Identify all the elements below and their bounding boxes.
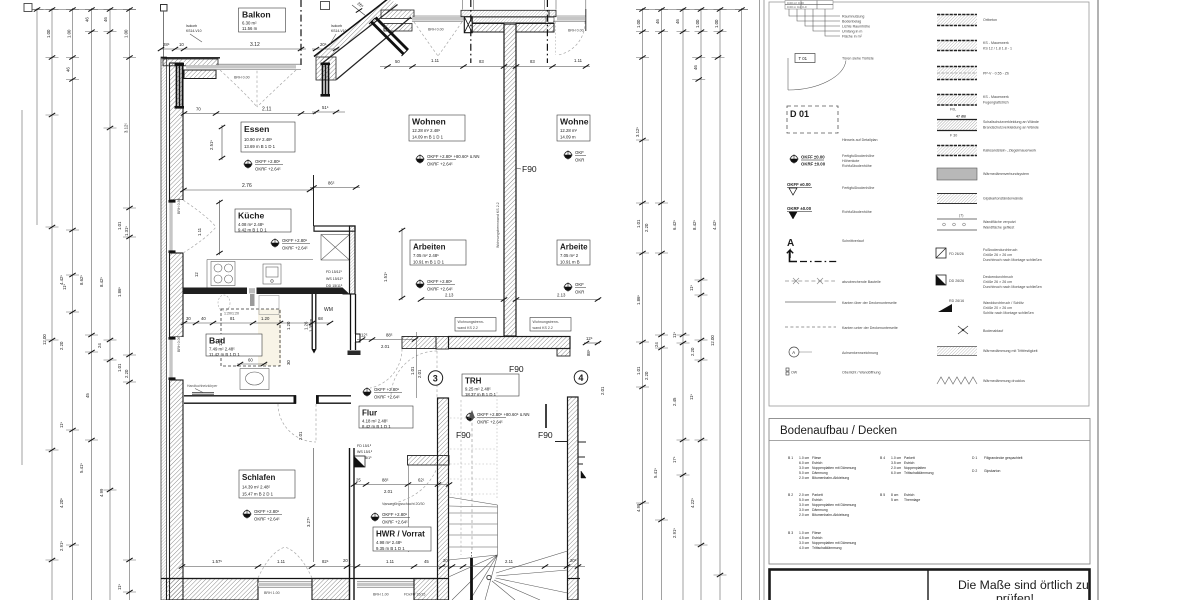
stair treads straight flight [449,497,498,555]
svg-text:1.00: 1.00 [67,29,72,38]
label box Wohnungstrennwand right [530,318,571,332]
svg-text:Fläche in m²: Fläche in m² [842,35,863,39]
party wall F90 label [516,168,521,169]
svg-text:A: A [792,350,795,355]
svg-text:OKRF +2.64⁵: OKRF +2.64⁵ [255,167,281,172]
svg-text:4.99: 4.99 [636,503,641,512]
Essen window right pier [316,57,336,80]
svg-text:1.0 cm: 1.0 cm [799,531,809,535]
svg-text:Schlafen: Schlafen [242,473,275,482]
svg-text:1.35 m: 1.35 m [309,318,314,332]
svg-text:PP-V - 0.55 - Zb: PP-V - 0.55 - Zb [983,72,1009,76]
svg-text:BRH 0.00: BRH 0.00 [234,76,250,80]
svg-text:Dämmung: Dämmung [812,508,828,512]
svg-text:wand KS 2.2: wand KS 2.2 [533,326,553,330]
svg-text:Küche: Küche [238,211,264,221]
svg-text:prüfen!: prüfen! [996,592,1034,600]
left dimension chain lines [22,8,136,600]
svg-text:OKFF +2.80⁵: OKFF +2.80⁵ [255,159,281,164]
Bad washbasin [240,369,269,390]
svg-text:14.09 m B 1 D 1: 14.09 m B 1 D 1 [412,135,444,140]
right chain labels [635,19,719,538]
svg-text:1.57⁵: 1.57⁵ [212,559,222,564]
small dim marks right of flur [583,336,601,345]
svg-text:2.20: 2.20 [644,371,649,380]
svg-text:Kalksandstein-, Ziegelmauerwer: Kalksandstein-, Ziegelmauerwerk [983,149,1036,153]
svg-text:2.45: 2.45 [672,397,677,406]
svg-text:Fertigfußbodenhöhe: Fertigfußbodenhöhe [842,186,874,190]
HWR left thin line [408,465,410,552]
svg-text:46: 46 [693,65,698,70]
svg-text:5.41⁵: 5.41⁵ [653,468,658,478]
pier dim 20 [312,42,340,51]
svg-text:BRH 0.00: BRH 0.00 [568,29,584,33]
wall piece WM/Flur vertical [351,294,361,350]
svg-text:4.08 m² 2.48⁵: 4.08 m² 2.48⁵ [238,222,264,227]
svg-text:Filigrandecke gespachtelt: Filigrandecke gespachtelt [984,456,1023,460]
legend solid edge line [785,301,836,303]
stair winder treads left [449,555,498,600]
legend door symbol T01 [795,54,815,63]
legend wall band Ziegelmauerwerk [937,145,1036,156]
svg-text:7.49 m² 2.48⁵: 7.49 m² 2.48⁵ [209,347,235,352]
svg-text:(7): (7) [959,214,963,218]
svg-text:OKR: OKR [575,158,584,163]
svg-text:Hinweis auf Detailplan: Hinweis auf Detailplan [842,138,878,142]
svg-text:30: 30 [286,360,291,365]
svg-text:2.0 cm: 2.0 cm [891,466,901,470]
svg-text:OKFF ±0.00: OKFF ±0.00 [801,155,825,160]
top wall Wohnen band lower [384,24,412,32]
svg-text:3.0 cm: 3.0 cm [799,541,809,545]
svg-text:4.22⁵: 4.22⁵ [690,498,695,508]
svg-text:88⁵: 88⁵ [586,349,591,356]
window left Kueche [167,198,184,253]
svg-text:2.20: 2.20 [124,369,129,378]
svg-text:10.91 m B 1 D 1: 10.91 m B 1 D 1 [413,260,445,265]
legend wall band Ortbeton [937,14,997,26]
TRH vertical mark [545,404,547,428]
svg-text:5.0 cm: 5.0 cm [799,498,809,502]
svg-text:OKRF ±0.00: OKRF ±0.00 [801,162,826,167]
svg-text:Thermlage: Thermlage [904,498,920,502]
window left Bad [167,336,184,380]
room label Bad [206,334,262,357]
svg-text:14.09 m: 14.09 m [560,135,576,140]
pier stub lines above top wall [463,0,586,10]
svg-text:6.0 cm: 6.0 cm [799,461,809,465]
isokorb labels [186,24,347,44]
Essen window curtain arcs [220,70,296,107]
svg-text:Rohfußbodenhöhe: Rohfußbodenhöhe [842,210,872,214]
svg-text:12: 12 [194,272,199,277]
svg-text:Noppenplatten mit Dämmung: Noppenplatten mit Dämmung [812,466,856,470]
sheet frame line inner2 [763,0,765,600]
stair walk line [469,410,475,600]
svg-text:Wärmedämmung mit Trittfestigke: Wärmedämmung mit Trittfestigkeit [983,349,1038,353]
svg-text:1.01: 1.01 [117,221,122,230]
svg-text:Bodenablauf: Bodenablauf [983,329,1003,333]
bottom wall outer edge [161,578,449,580]
svg-text:11⁵: 11⁵ [689,285,694,291]
legend stamp leader lines [789,9,840,36]
stairwell corner block [436,337,449,350]
top dim line windows row [380,58,590,69]
svg-text:KS - Mauerwerk: KS - Mauerwerk [983,95,1009,99]
svg-text:F90: F90 [509,364,524,374]
svg-text:FD 15/1⁵: FD 15/1⁵ [357,444,372,448]
svg-text:FDxFD 15/15: FDxFD 15/15 [404,593,425,597]
left exterior wall inner leaf segment 2 [170,253,184,337]
svg-text:OKRF ±0.00: OKRF ±0.00 [787,206,812,211]
svg-text:1.01: 1.01 [117,363,122,372]
svg-text:B 1: B 1 [788,456,793,460]
svg-text:7.05 m² 2: 7.05 m² 2 [560,253,579,258]
svg-text:12.28 m² 2.48⁵: 12.28 m² 2.48⁵ [412,128,441,133]
svg-text:2.20: 2.20 [690,347,695,356]
svg-text:Balkon: Balkon [242,10,271,20]
svg-text:Fliese: Fliese [812,531,821,535]
svg-text:46: 46 [675,19,680,24]
svg-text:1.0 cm: 1.0 cm [891,456,901,460]
Essen level symbol [243,159,283,172]
svg-text:OKFF +2.80⁵: OKFF +2.80⁵ [427,279,453,284]
svg-text:BRH 0.00: BRH 0.00 [428,28,444,32]
svg-text:OKFF +2.80⁵: OKFF +2.80⁵ [374,387,400,392]
svg-text:3.0 cm: 3.0 cm [799,466,809,470]
svg-text:Arbeite: Arbeite [560,243,588,252]
svg-text:1.31⁵: 1.31⁵ [124,226,129,236]
Kueche left rot dim [216,200,222,255]
Bodenaufbau text block B5 [880,493,920,502]
svg-text:OKFF +2.80⁵: OKFF +2.80⁵ [254,509,280,514]
svg-text:20⁵: 20⁵ [570,558,577,563]
svg-text:Noppenplatten: Noppenplatten [904,466,926,470]
svg-text:6.30 m²: 6.30 m² [242,21,257,26]
window reveal dotted right [555,22,557,55]
svg-text:Bodenaufbau / Decken: Bodenaufbau / Decken [780,425,897,437]
Arbeiten level symbol [415,279,455,292]
svg-text:D 2: D 2 [972,469,977,473]
legend wall band KS Fugenglattstrich [937,94,1009,112]
svg-text:Wandfläche verputzt: Wandfläche verputzt [983,220,1016,224]
svg-text:Fertigfußbodenhöhe: Fertigfußbodenhöhe [842,154,874,158]
svg-text:Größe 20 × 26 cm: Größe 20 × 26 cm [983,306,1012,310]
svg-text:Estrich: Estrich [812,498,822,502]
svg-text:3.12: 3.12 [250,42,260,48]
svg-text:OKRF +2.64⁵: OKRF +2.64⁵ [282,246,308,251]
svg-text:2.0 cm: 2.0 cm [799,476,809,480]
svg-text:Estrich: Estrich [812,461,822,465]
svg-text:4.0 cm: 4.0 cm [799,546,809,550]
wall Schlafen/HWR vertical double [350,448,355,600]
right Wohnen window glazing [557,17,585,20]
pier X-box left [464,17,472,33]
dim 2.13 right [513,293,601,302]
svg-text:Wanddurchbruch / Schlitz: Wanddurchbruch / Schlitz [983,301,1024,305]
svg-text:Umfang in m: Umfang in m [842,30,862,34]
svg-text:OKRF +2.64⁵: OKRF +2.64⁵ [427,162,453,167]
svg-text:20: 20 [343,558,348,563]
svg-text:13.69 m B 1 D 1: 13.69 m B 1 D 1 [244,144,276,149]
column marker top far-left [24,4,32,12]
svg-text:KS14-V10: KS14-V10 [186,29,202,33]
svg-text:1.11: 1.11 [431,58,440,63]
Flur top dim row [357,333,418,350]
Wohnen window glazing top [412,17,464,20]
svg-text:Lichte Raumhöhe: Lichte Raumhöhe [842,25,870,29]
room label Kueche [235,209,291,233]
stair rail dashed [460,400,462,555]
small diagonal dim 26 [352,1,366,16]
svg-text:1.00: 1.00 [124,29,129,38]
svg-text:Isokorb: Isokorb [331,24,342,28]
svg-text:Wärmedämmung drucklos: Wärmedämmung drucklos [983,379,1025,383]
svg-text:3.5 cm: 3.5 cm [891,461,901,465]
legend RD symbol [938,299,1034,315]
svg-text:wand KS 2.2: wand KS 2.2 [458,326,478,330]
svg-text:3.12⁵: 3.12⁵ [124,123,129,133]
svg-text:1.0 cm: 1.0 cm [799,456,809,460]
svg-text:Oberlicht / Wandöffnung: Oberlicht / Wandöffnung [842,371,881,375]
svg-text:Trittschalldämmung: Trittschalldämmung [812,546,842,550]
svg-text:2.01: 2.01 [298,431,303,440]
left exterior wall outer leaf [161,57,167,600]
right dimension chain lines [636,8,748,600]
kitchen counter line [207,260,313,288]
svg-text:2.01: 2.01 [417,369,422,378]
svg-text:abzubrechende Bauteile: abzubrechende Bauteile [842,280,881,284]
svg-text:1.11: 1.11 [218,337,223,346]
svg-text:Wohnungstrenn-: Wohnungstrenn- [533,320,560,324]
svg-text:88⁵: 88⁵ [386,333,393,338]
Bodenaufbau panel frame [769,419,1090,565]
svg-text:1.00: 1.00 [714,19,719,28]
svg-text:Bodenbelag: Bodenbelag [842,20,861,24]
bottom wall hatch mid [312,579,350,600]
svg-text:1.01: 1.01 [636,219,641,228]
svg-text:8.42 m B 1 D 1: 8.42 m B 1 D 1 [362,424,391,429]
legend dashed edge line [785,326,836,328]
legend abzubrechende symbol [785,280,835,282]
HWR dim row [351,478,452,495]
Schlafen top wall double line [184,395,351,403]
stair newel circle [487,575,491,579]
svg-text:2.91⁵: 2.91⁵ [672,528,677,538]
svg-text:Estrich: Estrich [812,536,822,540]
top wall Wohnen band left [381,10,414,19]
svg-text:17⁵: 17⁵ [672,456,677,463]
svg-text:8.42⁵: 8.42⁵ [99,277,104,287]
svg-text:Fußbodendurchbruch: Fußbodendurchbruch [983,248,1017,252]
svg-text:3.0 cm: 3.0 cm [799,503,809,507]
balcony symmetry axis [300,0,302,65]
svg-text:BRH 0.86: BRH 0.86 [177,198,181,214]
svg-text:11⁵: 11⁵ [62,284,67,290]
svg-text:11⁵: 11⁵ [117,584,122,590]
svg-text:OKFF +2.80⁵ +80.60⁵ ü.NN: OKFF +2.80⁵ +80.60⁵ ü.NN [427,154,480,159]
svg-text:FD 26/26: FD 26/26 [949,252,964,256]
svg-text:BRH 1.00: BRH 1.00 [373,593,389,597]
svg-text:Dämmung: Dämmung [812,471,828,475]
stairwell east wall [568,397,579,600]
svg-text:OKF: OKF [575,282,584,287]
svg-text:2.20: 2.20 [644,223,649,232]
legend axis circle A [789,347,799,357]
svg-text:9.42 m B 1 D 1: 9.42 m B 1 D 1 [238,228,267,233]
svg-text:1.11: 1.11 [386,559,395,564]
svg-text:47 dB: 47 dB [956,115,966,119]
svg-text:10.90 m² 2.48⁵: 10.90 m² 2.48⁵ [244,137,273,142]
svg-text:TRH: TRH [465,377,482,386]
svg-text:1:20/1:20: 1:20/1:20 [224,312,239,316]
legend Daemmung zigzag [937,377,1025,384]
svg-text:Durchbruch nach Montage schlie: Durchbruch nach Montage schließen [983,258,1042,262]
svg-text:Fliese: Fliese [812,456,821,460]
room label Essen [241,122,295,152]
svg-text:OKRF +2.64⁵: OKRF +2.64⁵ [254,517,280,522]
svg-text:DD 15/11⁵: DD 15/11⁵ [326,284,343,288]
top wall band lower right [516,24,554,33]
svg-text:OKRF +2.64⁵: OKRF +2.64⁵ [477,420,503,425]
svg-text:Brandschutzverkleidung an Wänd: Brandschutzverkleidung an Wände [983,126,1039,130]
svg-text:OKFF +2.80⁵: OKFF +2.80⁵ [282,238,308,243]
svg-text:Wohnungstrennwand KS 2.2: Wohnungstrennwand KS 2.2 [496,202,500,248]
dim 2.13 left [418,293,507,302]
svg-text:Estrich: Estrich [904,493,914,497]
svg-text:OW: OW [791,371,798,375]
svg-text:KS - Mauerwerk: KS - Mauerwerk [983,41,1009,45]
column marker top-left [161,5,168,12]
svg-text:Die Maße sind örtlich zu: Die Maße sind örtlich zu [958,578,1089,592]
svg-text:OKF: OKF [575,150,584,155]
Schlafen level symbol [242,509,282,522]
svg-text:B 4: B 4 [880,456,885,460]
svg-text:1.11: 1.11 [197,227,202,236]
svg-text:1.00: 1.00 [46,29,51,38]
svg-text:KS 12 / 1.8 1.8 - 1: KS 12 / 1.8 1.8 - 1 [983,47,1012,51]
svg-text:2.01: 2.01 [600,386,605,395]
Bodenaufbau text block D1 D2 [972,456,1023,473]
HWR level symbol [370,512,410,525]
axis dash center-left [470,0,472,63]
svg-text:86⁵: 86⁵ [328,181,335,186]
Schlafen door arc [278,404,316,442]
legend wall band KS-Mauerwerk [937,40,1012,51]
svg-text:BRH 1.00: BRH 1.00 [264,591,280,595]
svg-text:WM: WM [324,307,333,313]
svg-text:88⁵: 88⁵ [382,478,389,483]
svg-text:46: 46 [66,67,71,72]
balcony top wall edge [161,57,220,59]
svg-text:OKFF ±0.00: OKFF ±0.00 [787,182,811,187]
title block frame [770,570,1090,600]
svg-text:6.42⁵: 6.42⁵ [672,220,677,230]
Bodenaufbau text block B4 [880,456,934,475]
Kueche top wall band [314,226,355,231]
svg-text:Deckendurchbruch: Deckendurchbruch [983,275,1013,279]
svg-text:60: 60 [248,358,253,363]
stairwell west wall [438,398,449,600]
svg-text:5.0 cm: 5.0 cm [799,471,809,475]
right window end jamb [585,9,587,31]
svg-text:Bitumenbahn-Abkiebung: Bitumenbahn-Abkiebung [812,513,849,517]
rot dim 1.51 arbeiten [383,228,405,300]
svg-text:Trittschalldämmung: Trittschalldämmung [904,471,934,475]
Bodenaufbau text block B1 [788,456,856,480]
Wohnen level symbol [415,154,479,167]
svg-text:24: 24 [654,342,659,347]
svg-text:82⁵: 82⁵ [322,559,329,564]
Bad dim row [181,316,333,325]
top wall band center top [461,10,549,16]
svg-text:12.00: 12.00 [42,334,47,345]
title block divider [927,570,929,600]
diagonal window dark glazing strokes [369,18,408,57]
svg-text:F0L: F0L [950,108,956,112]
svg-text:DD 26/26: DD 26/26 [949,279,964,283]
svg-text:1.20: 1.20 [286,321,291,330]
svg-text:1.00: 1.00 [695,19,700,28]
Kueche right wall [350,226,356,294]
svg-text:70: 70 [196,107,201,112]
svg-text:11⁵: 11⁵ [59,422,64,428]
room label Wohnen right (cut) [557,115,590,141]
svg-text:12.00: 12.00 [710,335,715,346]
svg-text:Größe 26 × 26 cm: Größe 26 × 26 cm [983,253,1012,257]
svg-text:2.20: 2.20 [59,341,64,350]
bottom window curtain arcs [258,547,312,578]
svg-text:15.47 m B 2 D 1: 15.47 m B 2 D 1 [242,492,274,497]
svg-text:Schnittverlauf: Schnittverlauf [842,239,864,243]
Flur top wall band [402,337,436,349]
svg-text:4.18 m² 2.48⁵: 4.18 m² 2.48⁵ [362,419,388,424]
svg-text:Wohne: Wohne [560,117,589,127]
svg-text:4.98 m² 2.48⁵: 4.98 m² 2.48⁵ [376,540,402,545]
svg-text:Parkett: Parkett [812,493,823,497]
svg-text:OKRF +2.64⁵: OKRF +2.64⁵ [427,287,453,292]
svg-text:2.01: 2.01 [384,489,393,494]
dim 86 [310,181,360,190]
diagonal balcony wall [314,0,411,80]
bottom window HWR [357,582,414,588]
Bad dim 60 [237,358,267,367]
svg-text:Gipskarton: Gipskarton [984,469,1001,473]
sheet frame line outer [1097,0,1099,600]
svg-text:Noppenplatten mit Dämmung: Noppenplatten mit Dämmung [812,503,856,507]
svg-text:Achsenkennzeichnung: Achsenkennzeichnung [842,351,878,355]
svg-text:83: 83 [530,59,535,64]
pier window jambs dark [321,63,331,97]
svg-text:F90: F90 [522,164,537,174]
svg-text:2.11: 2.11 [505,559,514,564]
svg-text:10.91 m B: 10.91 m B [560,260,580,265]
svg-text:2.0 cm: 2.0 cm [799,493,809,497]
svg-text:OKR: OKR [575,290,584,295]
party wall Wohnungstrennwand [504,24,516,336]
svg-text:KS14-V10: KS14-V10 [331,29,347,33]
svg-text:Kanten über der Deckenuntersei: Kanten über der Deckenunterseite [842,301,897,305]
Bodenaufbau text block B3 [788,531,856,550]
svg-text:20⁵: 20⁵ [320,42,327,47]
svg-text:2.76: 2.76 [242,183,252,189]
shaft labels [326,270,344,288]
svg-text:3.12⁵: 3.12⁵ [635,127,640,137]
svg-text:4: 4 [578,373,583,383]
svg-text:68: 68 [318,316,323,321]
left chain labels [42,17,129,590]
svg-text:51⁵: 51⁵ [322,105,329,110]
